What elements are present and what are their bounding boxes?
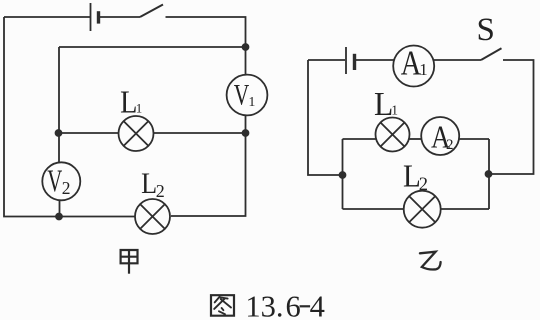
switch blade (left circuit) bbox=[140, 5, 163, 18]
lamp L2 (right circuit) bbox=[404, 191, 441, 228]
wire: inner left vertical down to middle node bbox=[58, 47, 60, 133]
wire: left circuit top-left segment bbox=[4, 16, 90, 18]
switch S blade bbox=[481, 48, 502, 60]
svg-text:4: 4 bbox=[310, 290, 325, 320]
battery (left circuit) short plate bbox=[97, 11, 100, 23]
svg-text:2: 2 bbox=[419, 175, 428, 195]
wire: A2 to right riser bbox=[459, 138, 489, 140]
node: right circuit left junction bbox=[340, 172, 346, 178]
voltmeter V2 circle bbox=[42, 162, 80, 200]
wire: branch 2 (L2) left segment bbox=[343, 208, 405, 210]
svg-text:1: 1 bbox=[248, 95, 255, 110]
voltmeter V1 circle bbox=[227, 75, 268, 116]
svg-text:1: 1 bbox=[136, 101, 143, 116]
node: right circuit right junction bbox=[486, 171, 492, 177]
label L2 (left circuit) bbox=[141, 168, 165, 201]
svg-text:13.: 13. bbox=[245, 290, 283, 320]
wire: bottom wire from lamp L2 to bottom-left corner, up left edge bbox=[4, 17, 135, 217]
wire: V2 down to bottom wire bbox=[59, 200, 61, 216]
svg-text:1: 1 bbox=[391, 103, 398, 118]
battery (right circuit) short plate bbox=[353, 54, 356, 70]
label V1 bbox=[234, 80, 256, 112]
node: top right junction bbox=[243, 44, 249, 50]
wire: lamp L1 to right node bbox=[154, 132, 246, 134]
wire: right riser of parallel section bbox=[488, 139, 490, 209]
wire: left riser of parallel section bbox=[342, 139, 344, 209]
svg-text:S: S bbox=[477, 12, 495, 48]
label V2 bbox=[47, 162, 70, 198]
wire: battery to ammeter A1 bbox=[356, 59, 395, 61]
wire: lamp L1 to ammeter A2 bbox=[409, 138, 422, 140]
svg-text:1: 1 bbox=[419, 60, 428, 79]
node: bottom left junction bbox=[56, 214, 62, 220]
lamp L1 (left circuit) bbox=[119, 116, 154, 151]
label 乙 (yi) hand-drawn bbox=[420, 252, 441, 270]
wire: left edge of right circuit down and to left junction bbox=[308, 60, 343, 175]
wire: switch to top-right corner and down to node bbox=[166, 17, 246, 47]
label L2 (right circuit) bbox=[403, 157, 428, 195]
wire: inner top horizontal bbox=[59, 46, 246, 48]
battery (right circuit) long plate bbox=[345, 47, 347, 74]
svg-text:2: 2 bbox=[62, 178, 71, 198]
caption 图 (tu) hand-drawn bbox=[211, 295, 234, 316]
svg-text:V: V bbox=[234, 80, 250, 112]
wire: middle node down to voltmeter V2 bbox=[58, 133, 60, 163]
wire: V1 to lower node and down to bottom-right corner bbox=[171, 115, 246, 216]
label L1 (right circuit) bbox=[374, 86, 398, 123]
lamp L2 (left circuit) bbox=[135, 199, 170, 234]
wire: right circuit top-left corner to battery bbox=[308, 59, 345, 61]
label 甲 (jia) hand-drawn bbox=[121, 250, 138, 274]
svg-text:L: L bbox=[120, 83, 137, 119]
node: middle right junction bbox=[243, 130, 249, 136]
wire: right edge from node down to voltmeter V1 bbox=[245, 47, 247, 75]
wire: middle branch from node to lamp L1 bbox=[59, 132, 120, 134]
wire: L2 to right riser bbox=[441, 208, 490, 210]
caption dash bbox=[300, 305, 311, 307]
battery (left circuit) long plate bbox=[90, 3, 92, 31]
svg-text:6: 6 bbox=[286, 290, 301, 320]
wire: A1 to switch pivot bbox=[433, 59, 481, 61]
ammeter A2 circle bbox=[421, 117, 459, 155]
svg-text:L: L bbox=[141, 168, 157, 200]
ammeter A1 circle bbox=[393, 46, 434, 87]
label A1 bbox=[401, 43, 428, 82]
label L1 (left circuit) bbox=[120, 83, 142, 119]
wire: battery to switch bbox=[100, 16, 140, 18]
svg-text:2: 2 bbox=[446, 137, 454, 153]
svg-text:2: 2 bbox=[156, 181, 165, 201]
wire: branch 1 left segment to lamp L1 bbox=[343, 138, 377, 140]
svg-text:V: V bbox=[47, 162, 62, 198]
label A2 bbox=[431, 119, 454, 155]
wire: switch contact to top-right corner, down right edge bbox=[489, 60, 534, 174]
lamp L1 (right circuit) bbox=[376, 118, 410, 152]
node: middle left junction bbox=[56, 130, 62, 136]
